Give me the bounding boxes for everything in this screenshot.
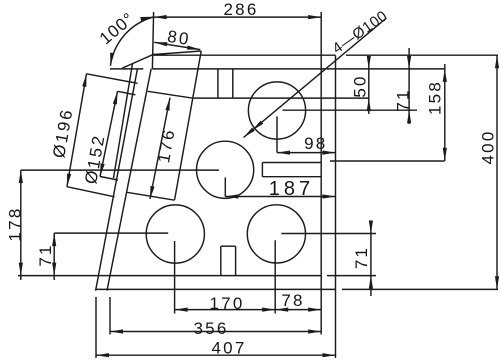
svg-text:80: 80 xyxy=(166,27,192,49)
svg-text:158: 158 xyxy=(426,80,445,115)
svg-text:71: 71 xyxy=(394,88,413,111)
svg-text:187: 187 xyxy=(269,178,314,200)
svg-text:178: 178 xyxy=(6,207,25,242)
svg-text:50: 50 xyxy=(351,74,370,97)
svg-text:400: 400 xyxy=(479,130,498,165)
svg-text:286: 286 xyxy=(224,0,259,19)
svg-text:356: 356 xyxy=(194,319,229,338)
svg-text:407: 407 xyxy=(212,339,247,358)
svg-text:71: 71 xyxy=(36,243,55,266)
svg-text:78: 78 xyxy=(281,291,304,310)
svg-text:98: 98 xyxy=(304,134,327,153)
svg-text:71: 71 xyxy=(352,246,371,269)
svg-text:170: 170 xyxy=(210,294,245,313)
